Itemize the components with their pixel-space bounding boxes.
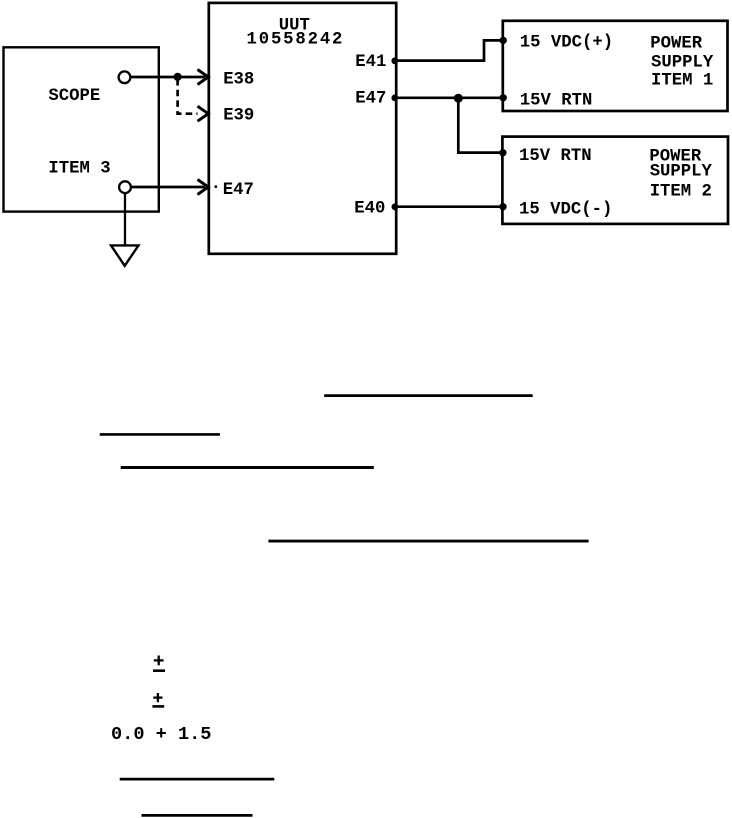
svg-text:SCOPE: SCOPE: [48, 87, 100, 106]
speck before E47: [214, 185, 217, 188]
svg-text:15 VDC(+): 15 VDC(+): [520, 34, 613, 53]
wire E47 to 15V RTN item1: [396, 96, 503, 99]
wire SCOPE to E38: [132, 76, 206, 79]
svg-text:E47: E47: [223, 181, 254, 200]
svg-text:E38: E38: [223, 70, 254, 89]
blank line 1: [324, 394, 533, 397]
junction node on SCOPE wire: [174, 73, 182, 81]
terminal dot 15V RTN item1: [500, 94, 507, 101]
blank line 4: [268, 540, 588, 543]
svg-text:E39: E39: [223, 107, 254, 126]
svg-text:ITEM 1: ITEM 1: [651, 72, 713, 91]
blank line 6: [142, 814, 253, 817]
pin dot E47: [391, 95, 398, 102]
UUT box: [209, 3, 396, 254]
svg-text:SUPPLY: SUPPLY: [650, 163, 713, 182]
arrowhead into E39: [198, 106, 209, 121]
svg-text:E40: E40: [354, 200, 385, 219]
svg-text:ITEM 3: ITEM 3: [48, 160, 110, 179]
connector circle J2 (ITEM 3): [119, 181, 131, 193]
junction node on RTN wire: [454, 94, 463, 103]
svg-text:E47: E47: [355, 90, 386, 109]
terminal dot 15V RTN item2: [499, 149, 506, 156]
svg-text:15V RTN: 15V RTN: [520, 91, 593, 110]
ground stem wire: [124, 194, 126, 246]
terminal dot 15 VDC(+): [500, 37, 507, 44]
pin dot E41: [391, 57, 398, 64]
arrowhead into E47 left: [198, 180, 209, 195]
svg-text:15 VDC(-): 15 VDC(-): [519, 200, 612, 219]
svg-text:E41: E41: [355, 53, 386, 72]
blank line 3: [121, 466, 374, 469]
svg-text:POWER: POWER: [650, 35, 702, 54]
wire ITEM 3 to E47: [132, 186, 205, 189]
dashed wire junction to E39: [178, 79, 198, 114]
power supply item 2 box: [502, 137, 728, 224]
wire E40 to 15 VDC(-): [396, 205, 503, 208]
terminal dot 15 VDC(-): [499, 203, 506, 210]
arrowhead into E38: [198, 70, 209, 85]
ground triangle: [111, 245, 139, 265]
blank line 5: [120, 778, 275, 781]
svg-text:SUPPLY: SUPPLY: [651, 53, 714, 72]
power supply item 1 box: [503, 21, 728, 111]
svg-text:15V RTN: 15V RTN: [519, 147, 592, 166]
wire junction to 15V RTN item2: [458, 98, 502, 152]
scope/item3 box: [4, 47, 159, 211]
plus-minus symbol 1: [153, 656, 165, 671]
wire E41 to 15 VDC(+): [396, 40, 503, 60]
pin dot E40: [392, 203, 399, 210]
svg-text:10558242: 10558242: [247, 31, 345, 50]
svg-text:ITEM 2: ITEM 2: [650, 183, 712, 202]
blank line 2: [100, 433, 220, 436]
connector circle J1 (SCOPE): [119, 71, 131, 83]
svg-text:0.0 + 1.5: 0.0 + 1.5: [111, 724, 211, 745]
plus-minus symbol 2: [152, 693, 164, 706]
